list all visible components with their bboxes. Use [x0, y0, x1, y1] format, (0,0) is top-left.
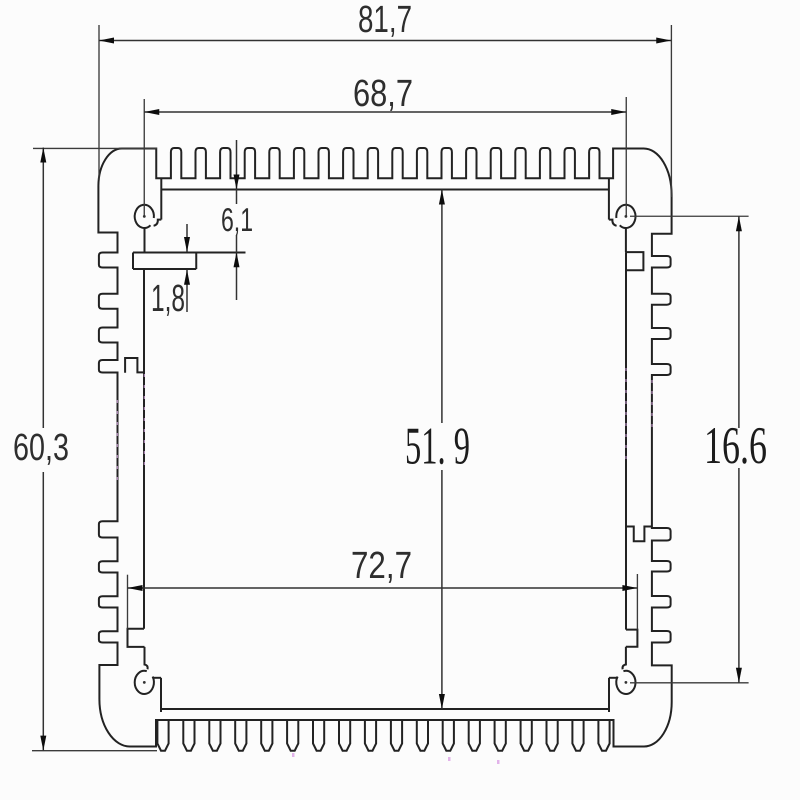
svg-text:1,8: 1,8: [151, 278, 185, 320]
svg-text:81,7: 81,7: [358, 0, 412, 41]
svg-text:60,3: 60,3: [13, 427, 69, 469]
svg-text:6,1: 6,1: [221, 201, 253, 238]
svg-text:16.6: 16.6: [704, 417, 767, 475]
svg-text:68,7: 68,7: [353, 73, 413, 115]
svg-text:51. 9: 51. 9: [405, 418, 470, 476]
svg-text:72,7: 72,7: [351, 545, 412, 587]
